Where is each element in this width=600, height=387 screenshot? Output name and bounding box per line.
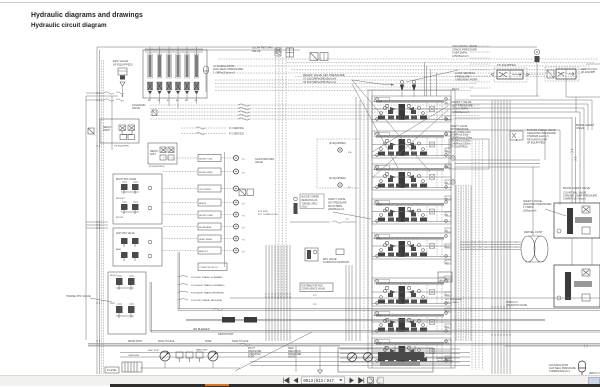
svg-text:ONLY: ONLY: [302, 207, 309, 209]
svg-text:P21: P21: [313, 295, 317, 297]
svg-text:A5: A5: [185, 99, 188, 102]
wire leader diagonals across valve block: [352, 80, 430, 172]
solenoid block small box: [152, 110, 157, 116]
svg-text:ARM: ARM: [374, 168, 379, 171]
svg-text:A4: A4: [176, 99, 179, 102]
function box BOOM RAISE: [163, 223, 233, 230]
wire pump bus: [88, 345, 340, 347]
wire pilot dashed bundle mid: [215, 79, 480, 81]
svg-text:(IF EQUIPPED): (IF EQUIPPED): [329, 177, 346, 180]
right ppc valve block: [113, 174, 162, 224]
function box BUCKET DUMP: [163, 211, 233, 218]
wire pilot dashed bundle upper: [218, 58, 598, 60]
wire right vertical bundle: [491, 100, 493, 374]
main control valve block frame: [368, 90, 455, 368]
valve section BUCKET: [372, 96, 451, 122]
svg-text:(IF EQUIPP: (IF EQUIPP: [581, 70, 595, 74]
wire epc riser: [111, 96, 113, 150]
svg-text:A1: A1: [148, 99, 151, 102]
valve section spool: [372, 278, 451, 306]
pump cluster small valves: [176, 352, 183, 358]
svg-text:DRAIN PORT: DRAIN PORT: [218, 333, 234, 336]
svg-text:P3: P3: [242, 159, 245, 161]
svg-text:LEFT PPC VALVE: LEFT PPC VALVE: [116, 232, 135, 235]
wire leader to spool: [545, 209, 566, 216]
svg-text:P2: P2: [346, 219, 349, 221]
svg-text:BOOM GUEST VALVE: BOOM GUEST VALVE: [563, 186, 590, 190]
svg-text:(390±5bar/cm²): (390±5bar/cm²): [328, 208, 345, 211]
svg-text:(TF EQUIPPED): (TF EQUIPPED): [450, 145, 468, 148]
wire dashed verticals right of block: [471, 140, 473, 370]
svg-text:BUCKET DUMP: BUCKET DUMP: [199, 215, 213, 217]
svg-text:P3: P3: [242, 173, 245, 175]
svg-text:P-(2 SIDE: P-(2 SIDE: [258, 211, 268, 213]
wire dashed verticals from pilot lines: [275, 57, 277, 300]
valve section SWING: [372, 310, 451, 334]
boom guest valve block: [554, 203, 600, 238]
svg-text:VENT PORT: VENT PORT: [148, 350, 160, 352]
svg-text:CONNECTING BLOCK: CONNECTING BLOCK: [199, 267, 218, 269]
svg-text:VALVE: VALVE: [252, 49, 261, 53]
wire bottom extra horizontals: [340, 348, 460, 350]
wire hoses from left bus: [104, 92, 114, 94]
top rule line: [0, 2, 600, 3]
relief valve symbols: [400, 80, 403, 83]
svg-text:ARM IN: ARM IN: [199, 202, 206, 205]
function box BUCKET CURL: [163, 155, 233, 162]
function box LEFT SWING: [163, 185, 233, 192]
svg-text:DISTRIBUTOR AND: DISTRIBUTOR AND: [302, 285, 323, 288]
svg-text:1.0MPa(10a/cm²): 1.0MPa(10a/cm²): [213, 70, 235, 74]
wire center vertical bundle B: [355, 97, 357, 341]
svg-text:TUNNEL SPEC: TUNNEL SPEC: [302, 203, 318, 205]
svg-text:P13 (RIGHT TRAVEL REVERSE): P13 (RIGHT TRAVEL REVERSE): [191, 292, 224, 295]
valve section LT TRVL: [372, 199, 451, 224]
bottom dark strip: [110, 384, 600, 387]
connecting block box: [198, 263, 227, 271]
wire pilot lines to ppc: [150, 104, 480, 106]
svg-text:LOCK: LOCK: [439, 277, 445, 279]
wire junction dots right bundle: [491, 306, 492, 307]
svg-text:34.3±0.5MPa: 34.3±0.5MPa: [445, 302, 459, 304]
svg-text:VALVE: VALVE: [255, 160, 263, 164]
lock valve box: [438, 272, 452, 282]
svg-text:RIGHT PPC VALVE: RIGHT PPC VALVE: [116, 178, 137, 181]
svg-text:RIGHT SWING: RIGHT SWING: [199, 239, 212, 241]
svg-text:REDUCING AS: REDUCING AS: [302, 199, 318, 202]
svg-text:LT TRVL: LT TRVL: [374, 204, 383, 206]
svg-text:P11 (LEFT TRAVEL FORWARD): P11 (LEFT TRAVEL FORWARD): [191, 276, 223, 279]
svg-text:BOOM: BOOM: [374, 238, 381, 240]
svg-text:CHECKING PORT: CHECKING PORT: [455, 78, 478, 82]
relief valve with gauge top right: [534, 49, 539, 96]
valve section ARM: [372, 164, 451, 190]
svg-text:P3: P3: [242, 190, 245, 192]
svg-text:BOOM: BOOM: [116, 217, 123, 219]
function box RIGHT SWING: [163, 235, 233, 242]
accumulator bottom right: [579, 361, 586, 372]
svg-text:RIGHT: RIGHT: [103, 129, 111, 132]
wire junction dots swivel bus: [467, 241, 468, 242]
switch valve (if equipped): [545, 67, 579, 81]
wire left bus horizontal crossing: [86, 221, 108, 223]
svg-text:1250/5ar/cm²): 1250/5ar/cm²): [452, 54, 469, 58]
svg-text:RIGHT: RIGHT: [110, 275, 117, 277]
svg-text:P12 (RIGHT TRAVEL FORWARD): P12 (RIGHT TRAVEL FORWARD): [191, 284, 225, 287]
gauge circles column: [234, 156, 239, 161]
hose symbols pilot lines: [238, 104, 250, 106]
wire right edge drop: [455, 117, 572, 119]
wire vertical pair with breaks: [571, 117, 573, 203]
svg-text:MAIN PUMP: MAIN PUMP: [196, 349, 208, 352]
servo right valve: [100, 119, 139, 148]
svg-text:BUCKET: BUCKET: [374, 101, 384, 103]
svg-text:P-2 SERVICE: P-2 SERVICE: [229, 133, 244, 136]
svg-text:VALVE: VALVE: [132, 106, 140, 110]
svg-text:P3: P3: [242, 204, 245, 206]
wire secondary top bus: [144, 49, 300, 51]
svg-text:LUBRICATE: LUBRICATE: [128, 354, 140, 357]
safety valve overload label box: [449, 139, 489, 169]
svg-text:PUMP: PUMP: [205, 341, 212, 343]
wire dashed frame if-equipped: [317, 139, 360, 188]
bottom orange accent: [205, 384, 229, 386]
svg-text:A2: A2: [158, 99, 161, 102]
svg-text:SET PRESSURE: SET PRESSURE: [445, 299, 462, 301]
svg-text:P3: P3: [242, 228, 245, 230]
slow return mid boxes: [239, 189, 246, 196]
slow return valve boxes: [275, 48, 281, 52]
svg-text:(260ar/cm²): (260ar/cm²): [523, 208, 537, 212]
svg-text:OPERATION VALVE: OPERATION VALVE: [506, 304, 528, 307]
solenoid valve units: [148, 47, 153, 102]
distributor and confluence valve box: [300, 283, 333, 292]
svg-text:P3: P3: [242, 252, 245, 254]
wire right text leader stubs: [470, 45, 490, 47]
svg-text:ARM OUT: ARM OUT: [199, 250, 209, 253]
svg-text:0.98MPa(10a/cm²): 0.98MPa(10a/cm²): [549, 370, 570, 373]
svg-text:VALVE: VALVE: [576, 126, 584, 130]
svg-text:BOOM LOWER: BOOM LOWER: [199, 172, 213, 174]
wire load sensing diagonal leader: [406, 70, 458, 82]
gauge circle right upper: [451, 156, 455, 160]
wire center vertical bundle A: [265, 245, 267, 341]
svg-text:BUCKET: BUCKET: [116, 198, 126, 200]
pump suction lines: [164, 361, 166, 368]
gauge circle right lower: [451, 180, 455, 184]
epc valve cushion for boom: [305, 248, 344, 261]
svg-text:BUCKET CURL: BUCKET CURL: [199, 159, 212, 161]
pilot pump circle: [160, 351, 170, 361]
svg-text:BOOM RAISE: BOOM RAISE: [199, 226, 212, 229]
footer right button: [588, 377, 600, 387]
travel pilot labels P11-P14: [178, 276, 188, 277]
servo left valve: [148, 143, 177, 168]
solenoid valve bank frame: [143, 50, 207, 98]
svg-text:FACE TO FACE: FACE TO FACE: [158, 340, 175, 343]
valve section BOOM: [372, 233, 451, 259]
svg-text:P-1 SERVICE: P-1 SERVICE: [229, 127, 244, 130]
svg-text:VALVE: VALVE: [288, 356, 296, 359]
svg-text:BUCKET SPEED: BUCKET SPEED: [302, 197, 320, 199]
main pump circle left: [208, 351, 218, 361]
svg-text:PORT: PORT: [248, 356, 255, 359]
svg-text:(IF EQUIPPED): (IF EQUIPPED): [329, 142, 346, 145]
svg-text:P3: P3: [242, 240, 245, 242]
travel ppc valve block: [108, 272, 146, 334]
svg-text:T/F EQUIPPED: T/F EQUIPPED: [114, 146, 130, 148]
wire nested corner routes to boom guest valve: [455, 100, 592, 130]
svg-text:P-LEVEL: P-LEVEL: [107, 369, 118, 372]
wire top right connections: [470, 95, 539, 97]
wire bottom drop lines: [295, 346, 297, 372]
wire swivel feeders vertical: [532, 167, 534, 236]
svg-text:0.85MPa (8.7a/cm²): 0.85MPa (8.7a/cm²): [563, 197, 586, 201]
svg-text:34.8±0.5MPa(355±5a/cm²): 34.8±0.5MPa(355±5a/cm²): [303, 80, 336, 84]
valve section TRAVEL: [372, 338, 451, 364]
svg-text:SWING: SWING: [374, 315, 382, 317]
svg-text:SWING LO: SWING LO: [506, 302, 518, 304]
bypass check valve: [510, 131, 523, 140]
bucket speed reducing label box: [300, 194, 324, 209]
svg-text:LEFT: LEFT: [150, 153, 156, 156]
svg-text:PVT CONNECTION: PVT CONNECTION: [258, 214, 278, 216]
wire dashed verticals center: [363, 100, 365, 330]
svg-text:CONFLUENCE VALVE: CONFLUENCE VALVE: [302, 287, 326, 290]
function box BOOM LOWER: [163, 168, 233, 175]
wire function column connector: [224, 152, 226, 267]
valve section spool: [372, 131, 451, 158]
nav controls: [281, 376, 401, 385]
wire hose run below bucket speed: [290, 221, 330, 223]
accumulator symbol: [204, 66, 209, 74]
bucket speed valve: [294, 197, 298, 201]
wire bus left turns: [177, 252, 179, 310]
svg-text:CUSHION FOR BOOM: CUSHION FOR BOOM: [323, 261, 349, 264]
wire left frame vertical: [85, 96, 87, 340]
bus junction small box: [88, 128, 94, 134]
function box ARM IN: [163, 199, 233, 206]
wire right block connection: [571, 238, 573, 265]
wire left bus junction dots: [96, 92, 97, 93]
svg-text:T/F EQUIPPED: T/F EQUIPPED: [497, 63, 516, 67]
swivel joint symbol: [521, 236, 548, 262]
svg-text:9913 (913 / 917.: 9913 (913 / 917.: [303, 378, 335, 383]
svg-text:A3: A3: [167, 99, 170, 102]
left ppc valve block: [113, 228, 162, 266]
wire routes to swivel joint: [455, 159, 540, 161]
wire right-of-block vertical bundle: [455, 185, 457, 341]
svg-text:TRAVEL PPC VALVE: TRAVEL PPC VALVE: [66, 294, 91, 298]
svg-text:(IF EQUIPPED): (IF EQUIPPED): [149, 166, 165, 168]
svg-text:ARM: ARM: [116, 248, 121, 251]
main pump cluster: [338, 346, 433, 372]
svg-text:P14 (LEFT TRAVEL REVERSE): P14 (LEFT TRAVEL REVERSE): [191, 299, 222, 302]
svg-text:P3: P3: [242, 216, 245, 218]
wire travel ppc leader: [90, 298, 112, 302]
svg-text:DRAIN PORT: DRAIN PORT: [128, 340, 143, 343]
function box ARM OUT: [163, 247, 233, 254]
page subtitle: [31, 22, 107, 29]
footer toolbar: [0, 375, 600, 386]
svg-text:VALVE: VALVE: [439, 279, 446, 282]
tank box left: [122, 362, 142, 372]
page title: [31, 12, 143, 19]
svg-text:LEFT: LEFT: [110, 303, 116, 305]
svg-text:(IF EQUIPPED): (IF EQUIPPED): [113, 62, 133, 66]
svg-text:LOCK VALVE: LOCK VALVE: [437, 357, 451, 360]
hose breaks on buses: [213, 308, 223, 310]
wire verticals into block top: [424, 62, 426, 96]
svg-text:LEFT SWING: LEFT SWING: [199, 189, 211, 191]
holding valve block lower: [554, 265, 600, 307]
wire bottom right run to accumulator: [505, 345, 600, 347]
wire top main bus: [97, 46, 537, 48]
service line labels: [181, 127, 227, 129]
svg-text:(IF EQUIPPED): (IF EQUIPPED): [527, 140, 545, 144]
svg-text:PLUG: PLUG: [452, 87, 459, 91]
wire left vertical pilot bus: [96, 47, 98, 374]
slow return secondary boxes: [310, 53, 318, 61]
svg-text:P-A: P-A: [348, 151, 352, 154]
wire relief leader: [352, 80, 394, 85]
wire bus into swivel joint: [460, 241, 521, 243]
svg-text:AIR BLEEDER: AIR BLEEDER: [193, 328, 210, 331]
wire long horizontal buses: [230, 297, 600, 299]
valve block port boxes: [445, 100, 451, 104]
svg-text:SWIVEL JOINT: SWIVEL JOINT: [524, 230, 543, 234]
svg-text:P22: P22: [313, 304, 317, 306]
svg-text:A6: A6: [195, 99, 198, 102]
svg-text:FACE TO FACE: FACE TO FACE: [232, 340, 249, 343]
travel junction boxes: [222, 317, 235, 323]
